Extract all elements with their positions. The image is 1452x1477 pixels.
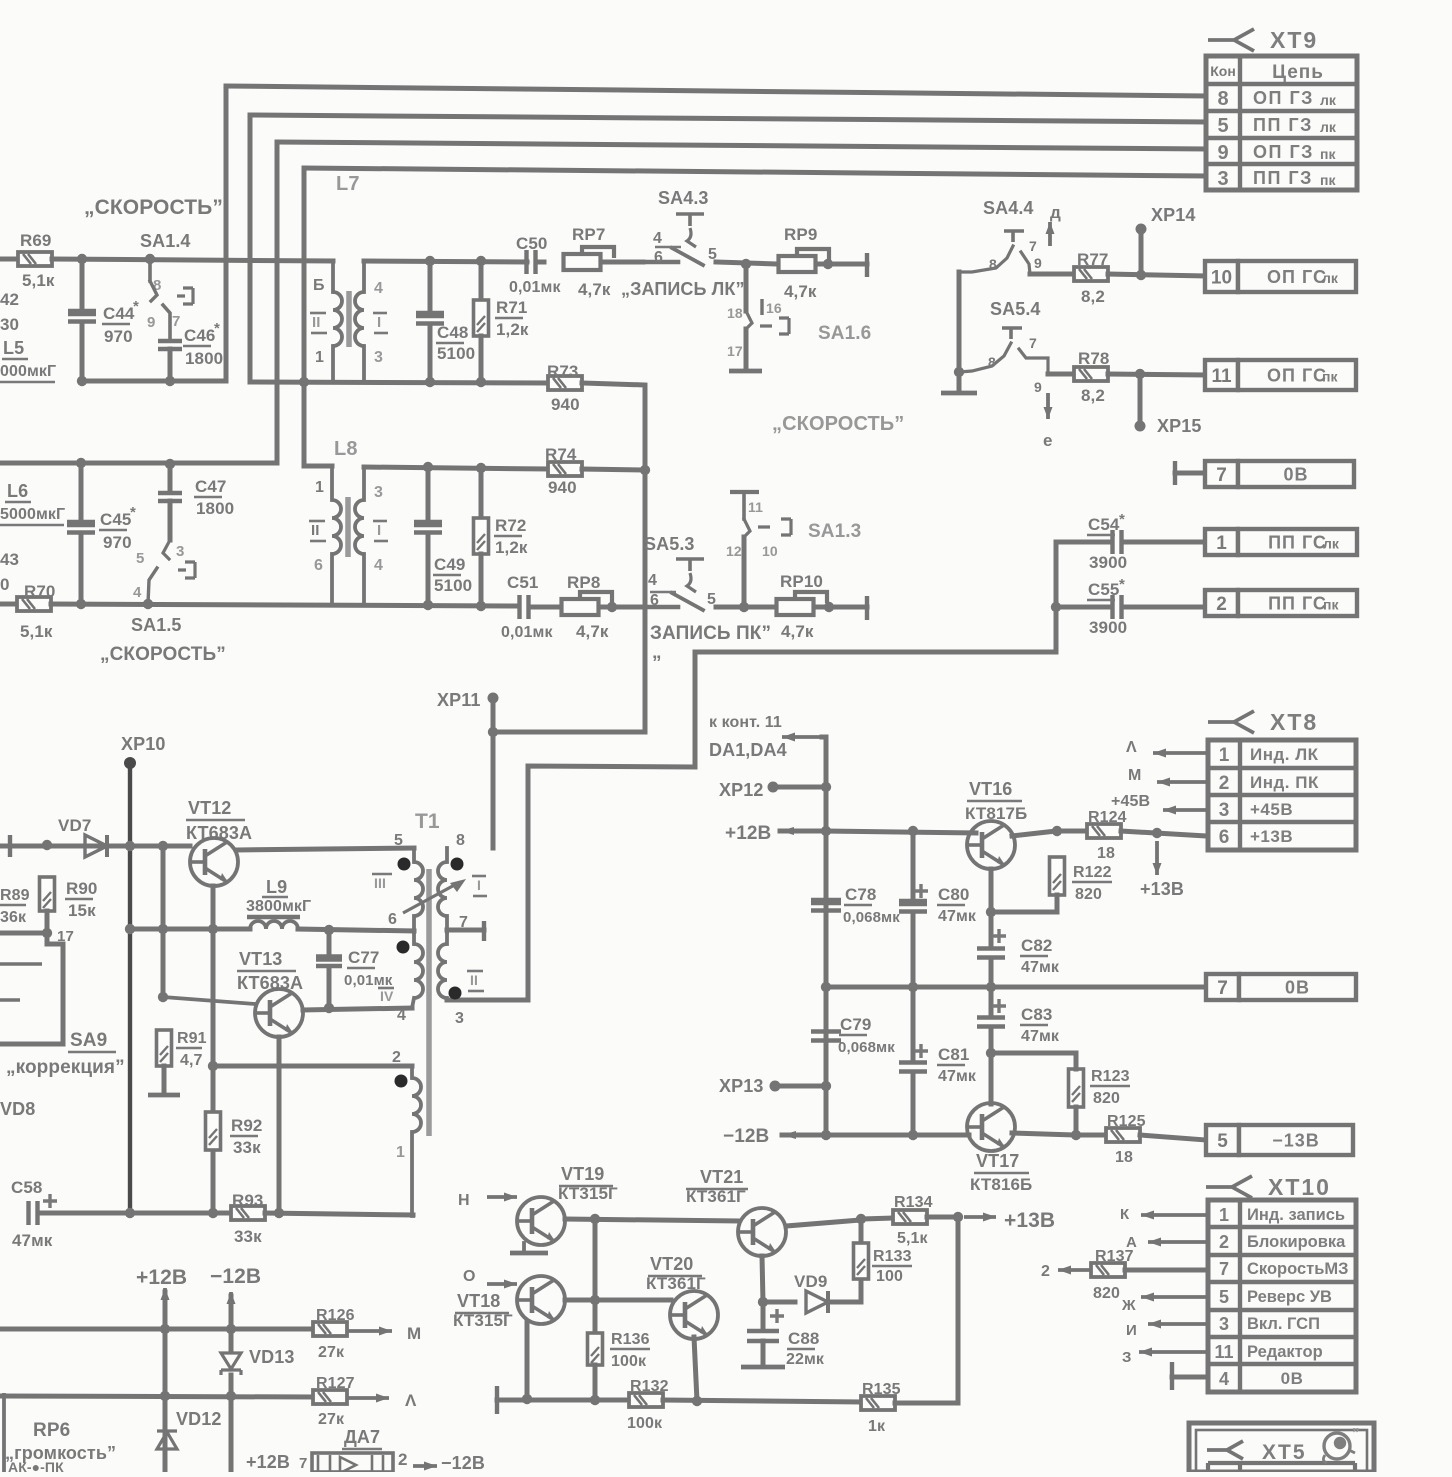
- resistor R125: [1106, 1128, 1140, 1142]
- transistor VT16: [967, 821, 1015, 869]
- potentiometer RP10: [777, 592, 828, 615]
- node +13V bottom: [953, 1212, 963, 1222]
- node XP15: [1135, 369, 1145, 379]
- node RP10 out: [824, 602, 834, 612]
- wire C44 bottom: [80, 325, 85, 381]
- svg-text:VT12: VT12: [188, 798, 231, 818]
- svg-text:C77: C77: [348, 948, 380, 967]
- svg-text:5: 5: [1219, 1287, 1229, 1307]
- capacitor C46 symbol: [158, 341, 182, 349]
- wire vertical net PP G3 pk: [302, 168, 307, 466]
- svg-text:ДА7: ДА7: [344, 1427, 380, 1447]
- svg-text:VD13: VD13: [249, 1347, 294, 1367]
- svg-text:СкоростьМЗ: СкоростьМЗ: [1247, 1260, 1348, 1278]
- svg-text:*: *: [214, 320, 220, 337]
- terminal bar LK: [865, 253, 869, 277]
- adjustment arrow T1: [403, 882, 460, 913]
- node -12V/L row: [226, 1391, 236, 1401]
- plug XP11: [488, 693, 499, 704]
- svg-text:II: II: [311, 522, 320, 539]
- capacitor C44: [68, 313, 96, 322]
- wire C77 bottom lead: [327, 967, 332, 1009]
- svg-text:I: I: [377, 314, 381, 331]
- phase dot T1 winding I: [451, 858, 464, 871]
- svg-text:ПП ГЗ: ПП ГЗ: [1253, 168, 1313, 188]
- wire T1 pin3 to C54/C55 node: [447, 542, 1056, 1000]
- node C55 tap: [1051, 602, 1061, 612]
- resistor R69: [18, 252, 52, 266]
- resistor R136: [588, 1333, 603, 1365]
- plug XP10: [124, 757, 136, 769]
- svg-text:SA4.4: SA4.4: [983, 198, 1034, 218]
- svg-text:XP11: XP11: [437, 690, 480, 710]
- capacitor C78 plates: [811, 902, 841, 911]
- node block1 rail C46: [165, 376, 175, 386]
- arrow to DA1 DA4: [782, 733, 822, 742]
- node R136 bottom: [590, 1395, 600, 1405]
- terminal bottom rail: [495, 1386, 499, 1414]
- arrow -12V up: [227, 1292, 236, 1320]
- node R133 top: [856, 1214, 866, 1224]
- connector pin 1 PP GS lk: [1205, 529, 1357, 555]
- wire R133 bottom lead: [859, 1281, 864, 1302]
- svg-text:10: 10: [762, 543, 778, 559]
- svg-text:SA4.3: SA4.3: [658, 188, 709, 208]
- svg-text:5,1к: 5,1к: [22, 271, 55, 290]
- connector XT8 label: [1208, 709, 1318, 735]
- node C82/C83 0V: [986, 982, 996, 992]
- svg-text:XP14: XP14: [1151, 205, 1195, 225]
- svg-text:970: 970: [104, 327, 133, 346]
- svg-text:6: 6: [314, 557, 323, 574]
- wire C48 upper: [428, 261, 433, 312]
- node R90 top: [42, 840, 52, 850]
- svg-text:C47: C47: [195, 477, 227, 496]
- node R92/T1 pin2: [208, 1061, 218, 1071]
- connector pin 11 OP GS pk: [1205, 360, 1356, 390]
- svg-text:−13В: −13В: [1272, 1130, 1320, 1150]
- svg-text:0В: 0В: [1285, 977, 1310, 997]
- svg-text:Реверс УВ: Реверс УВ: [1247, 1288, 1332, 1306]
- svg-text:1: 1: [396, 1144, 405, 1161]
- resistor R93: [231, 1206, 265, 1220]
- wire R77 to XT box: [1108, 274, 1205, 276]
- svg-text:R90: R90: [66, 879, 98, 898]
- node C48 top: [425, 256, 435, 266]
- wire bottom rail 1: [497, 1398, 629, 1403]
- wire VD9 to R133: [829, 1300, 861, 1305]
- node XP11 junction: [488, 727, 498, 737]
- wire R91 to ground: [162, 1066, 167, 1093]
- svg-text:М: М: [407, 1324, 421, 1343]
- transformer T1 left winding IV: [412, 932, 416, 944]
- wire XP11 to R73/R74 branch: [493, 730, 645, 735]
- svg-text:17: 17: [727, 343, 743, 359]
- resistor R124: [1087, 824, 1121, 838]
- svg-text:5,1к: 5,1к: [897, 1230, 929, 1247]
- wire -12V vertical upper: [229, 1296, 234, 1352]
- svg-text:I: I: [477, 877, 481, 893]
- node C48 bottom: [425, 377, 435, 387]
- svg-text:0,068мк: 0,068мк: [843, 909, 900, 926]
- node VT16 emitter/R122: [986, 907, 996, 917]
- svg-text:+12В: +12В: [246, 1452, 290, 1472]
- svg-text:7: 7: [172, 313, 180, 330]
- node crossing PP G3 pk: [299, 377, 309, 387]
- node RP9 out: [823, 259, 833, 269]
- svg-text:0В: 0В: [1283, 464, 1308, 484]
- wire C81 bottom lead: [911, 1072, 916, 1135]
- node C77 bottom: [324, 1003, 334, 1013]
- phase dot T1 winding V: [395, 1075, 408, 1088]
- svg-text:„ЗАПИСЬ ЛК”: „ЗАПИСЬ ЛК”: [621, 279, 745, 299]
- node block2 C45 top: [76, 458, 86, 468]
- switch SA1.3: [730, 490, 759, 494]
- wire L8 top rail: [364, 467, 548, 469]
- svg-text:1: 1: [1219, 1205, 1229, 1225]
- terminal 0V upper: [1173, 461, 1177, 485]
- node C80/C81 0V: [908, 982, 918, 992]
- resistor R77: [1074, 267, 1108, 281]
- node XP14: [1136, 270, 1146, 280]
- phase dot T1 winding II: [449, 987, 462, 1000]
- svg-text:R91: R91: [177, 1030, 207, 1047]
- svg-text:C79: C79: [840, 1015, 872, 1034]
- svg-text:6: 6: [388, 911, 397, 928]
- resistor R78: [1074, 367, 1108, 381]
- wire VD7 row: [0, 844, 190, 849]
- svg-text:0,068мк: 0,068мк: [838, 1039, 895, 1056]
- wire to C54: [1056, 540, 1110, 545]
- resistor R71: [474, 300, 489, 336]
- wire R71 upper: [479, 261, 484, 301]
- svg-text:1: 1: [315, 349, 324, 366]
- svg-text:IV: IV: [380, 988, 394, 1004]
- svg-text:VT21: VT21: [700, 1167, 743, 1187]
- svg-text:+45В: +45В: [1111, 793, 1150, 810]
- svg-text:Ж: Ж: [1121, 1297, 1136, 1314]
- switch SA1.3 arm: [744, 519, 750, 537]
- node +12V bus: [821, 826, 831, 836]
- wire XP11 vertical: [491, 698, 496, 848]
- resistor R70: [17, 597, 51, 611]
- transistor VT17: [967, 1103, 1015, 1151]
- svg-text:R72: R72: [495, 516, 527, 535]
- svg-text:9: 9: [147, 314, 155, 331]
- svg-text:C58: C58: [11, 1178, 43, 1197]
- svg-text:3: 3: [1219, 800, 1230, 821]
- svg-text:„СКОРОСТЬ”: „СКОРОСТЬ”: [84, 196, 223, 219]
- node +12V/M row: [160, 1324, 170, 1334]
- svg-text:ХТ9: ХТ9: [1270, 27, 1318, 53]
- svg-text:XP12: XP12: [719, 780, 763, 800]
- svg-text:4,7к: 4,7к: [784, 282, 817, 301]
- svg-text:4: 4: [133, 584, 142, 601]
- wire C77 top lead: [327, 930, 332, 957]
- svg-text:VD7: VD7: [58, 816, 91, 835]
- arrow VT18 base: [487, 1280, 517, 1289]
- svg-text:Кон: Кон: [1210, 63, 1236, 79]
- svg-text:3: 3: [1219, 1314, 1229, 1334]
- node junction SA1.4: [145, 254, 155, 264]
- wire C45 top: [79, 463, 84, 520]
- wire C51 to RP8: [529, 605, 561, 610]
- node R74 vertical: [640, 465, 650, 475]
- wire VT21 emitter down: [762, 1256, 763, 1302]
- switch SA1.4 throw contact: [177, 288, 193, 304]
- svg-text:R70: R70: [24, 582, 56, 601]
- wire XP15 stub: [1138, 374, 1143, 424]
- connector pin 7 0V upper: [1205, 461, 1354, 487]
- svg-text:”: ”: [1352, 1425, 1360, 1442]
- node +13V arrow: [1152, 828, 1162, 838]
- svg-text:1: 1: [1219, 745, 1230, 766]
- svg-text:R78: R78: [1078, 349, 1110, 368]
- wire block1 bottom rail: [82, 379, 226, 384]
- svg-text:пк: пк: [1320, 146, 1336, 162]
- svg-text:5100: 5100: [434, 576, 472, 595]
- transformer T1 right winding II: [445, 932, 449, 944]
- wire SA1.6 down: [744, 329, 749, 370]
- svg-text:ОП ГС: ОП ГС: [1267, 365, 1327, 385]
- svg-text:+45В: +45В: [1250, 800, 1293, 819]
- svg-text:9: 9: [1034, 255, 1042, 271]
- node junction R69/C44: [77, 254, 87, 264]
- node VT12 emitter/L9: [208, 924, 218, 934]
- capacitor C88 plates: [747, 1331, 779, 1341]
- svg-text:820: 820: [1093, 1090, 1120, 1107]
- svg-text:100к: 100к: [611, 1353, 647, 1370]
- switch block SA9 box partial: [0, 964, 42, 1000]
- switch SA1.6 arm: [746, 311, 752, 329]
- svg-text:АК-●-ПК: АК-●-ПК: [8, 1459, 64, 1472]
- capacitor C49: [414, 524, 442, 533]
- wire VT19 emitter: [522, 1243, 526, 1251]
- node VT13 emitter bottom: [274, 1208, 284, 1218]
- potentiometer RP7: [564, 247, 615, 270]
- node C45 bottom: [76, 599, 86, 609]
- diode VD12: [157, 1431, 177, 1449]
- arrow XT10 pin3: [1148, 1320, 1208, 1329]
- capacitor C47: [158, 493, 182, 501]
- svg-text:ОП ГС: ОП ГС: [1267, 267, 1327, 287]
- svg-text:КТ315Г: КТ315Г: [453, 1311, 513, 1330]
- svg-text:5: 5: [1217, 115, 1228, 137]
- node R71 top: [476, 256, 486, 266]
- wire VT17 out: [1012, 1133, 1076, 1135]
- wire R71 lower: [479, 336, 484, 382]
- svg-text:47мк: 47мк: [1021, 1028, 1060, 1045]
- svg-text:L6: L6: [7, 481, 28, 501]
- node C80 top: [908, 826, 918, 836]
- capacitor C54: [1113, 530, 1122, 554]
- svg-text:33к: 33к: [234, 1227, 262, 1246]
- svg-text:−12В: −12В: [441, 1453, 485, 1472]
- wire to R124: [1057, 829, 1087, 834]
- node R122 top: [1052, 826, 1062, 836]
- wire R124 to XT8: [1121, 831, 1206, 836]
- wire to C55: [1056, 605, 1110, 610]
- node block2 C47 top: [165, 459, 175, 469]
- node bus 0V: [821, 982, 831, 992]
- wire SA4.4 to R77: [1030, 272, 1074, 277]
- svg-text:43: 43: [0, 550, 19, 569]
- svg-text:пк: пк: [1323, 596, 1339, 612]
- svg-text:ОП ГЗ: ОП ГЗ: [1253, 142, 1314, 162]
- svg-text:1к: 1к: [868, 1418, 886, 1435]
- diode VD9: [806, 1291, 828, 1313]
- svg-text:Цепь: Цепь: [1272, 62, 1324, 83]
- svg-text:VD8: VD8: [0, 1099, 35, 1119]
- node C77 top: [324, 925, 334, 935]
- svg-text:3900: 3900: [1089, 553, 1127, 572]
- arrow XT8 pin3: [1163, 806, 1206, 815]
- wire vertical net OP G3 lk: [224, 86, 229, 381]
- wire XP14 stub: [1139, 231, 1144, 275]
- wire R70 left: [0, 602, 17, 607]
- svg-text:R89: R89: [0, 887, 30, 904]
- connector XT8 table: [1208, 740, 1356, 850]
- svg-text:33к: 33к: [233, 1138, 261, 1157]
- svg-text:О: О: [463, 1268, 476, 1285]
- resistor R73: [548, 376, 582, 390]
- wire XP10 vertical: [128, 763, 132, 1213]
- wire bottom rail right: [265, 1213, 413, 1215]
- node RP9/SA1.6: [741, 259, 751, 269]
- svg-text:C45: C45: [100, 510, 132, 529]
- node XP10/VD7: [125, 841, 135, 851]
- svg-text:820: 820: [1093, 1285, 1120, 1302]
- svg-text:C81: C81: [938, 1045, 970, 1064]
- svg-text:*: *: [133, 298, 139, 315]
- capacitor C50: [527, 250, 536, 274]
- svg-text:Н: Н: [458, 1192, 470, 1209]
- svg-text:L5: L5: [3, 338, 24, 358]
- capacitor C45: [67, 524, 95, 533]
- wire RP8 to SA5.3: [599, 605, 643, 610]
- svg-text:47мк: 47мк: [1021, 959, 1060, 976]
- wire SA4.4 common: [957, 272, 962, 372]
- wire C80 bottom lead: [911, 912, 916, 987]
- terminal bar SA1.6: [729, 369, 762, 374]
- svg-text:C55: C55: [1088, 580, 1120, 599]
- svg-text:940: 940: [548, 478, 577, 497]
- resistor R135: [861, 1396, 895, 1410]
- svg-text:R124: R124: [1088, 809, 1127, 826]
- resistor R91: [157, 1030, 172, 1066]
- svg-text:3: 3: [1217, 168, 1228, 190]
- svg-text:1: 1: [315, 479, 324, 496]
- svg-text:R92: R92: [231, 1116, 263, 1135]
- wire C49 upper: [426, 467, 431, 521]
- connector pin 7 0V lower: [1206, 974, 1356, 1000]
- svg-text:C54: C54: [1088, 515, 1120, 534]
- wire R125 to XT box: [1140, 1135, 1206, 1140]
- svg-text:5: 5: [394, 832, 403, 849]
- wire R72 upper: [479, 468, 484, 519]
- wire +12V in: [780, 829, 826, 834]
- svg-text:SA9: SA9: [70, 1030, 107, 1051]
- inductor L8 right winding I: [362, 467, 366, 500]
- svg-text:XP13: XP13: [719, 1076, 763, 1096]
- svg-text:*: *: [1119, 511, 1125, 528]
- arrow XT8 pin2: [1157, 778, 1206, 787]
- capacitor C80: [899, 903, 927, 912]
- node L8 rail C49: [423, 462, 433, 472]
- svg-text:8: 8: [989, 256, 997, 272]
- wire RP9 to stop: [816, 262, 867, 267]
- wire +12V rail: [826, 831, 976, 833]
- transistor VT18: [517, 1276, 565, 1324]
- node L9/VD7 branch: [158, 924, 168, 934]
- wire R123 top lead: [1074, 1053, 1079, 1069]
- plug XP13: [770, 1081, 781, 1092]
- svg-text:3800мкГ: 3800мкГ: [246, 898, 311, 915]
- svg-text:RP8: RP8: [567, 573, 600, 592]
- node -12V/M row: [226, 1324, 236, 1334]
- wire R136 bottom: [593, 1365, 598, 1400]
- wire C47 to SA1.5: [168, 501, 173, 540]
- svg-text:Λ: Λ: [1126, 739, 1137, 756]
- wire L7 top rail to C50: [364, 261, 527, 262]
- svg-text:XP15: XP15: [1157, 416, 1201, 436]
- wire C45 bottom: [79, 536, 84, 604]
- svg-text:Инд. ЛК: Инд. ЛК: [1250, 745, 1319, 764]
- wire VT16 collector out: [1012, 831, 1056, 836]
- svg-text:3: 3: [455, 1010, 464, 1027]
- svg-text:0В: 0В: [1281, 1369, 1304, 1388]
- svg-text:Инд. запись: Инд. запись: [1247, 1206, 1345, 1224]
- icon XT5 screw: [1324, 1433, 1350, 1459]
- wire SA4.3 to RP9: [716, 262, 778, 264]
- transformer T1 left winding V: [370, 1065, 412, 1067]
- ground SA4.4/SA5.4: [941, 391, 977, 396]
- arrow +13V down: [1153, 841, 1162, 875]
- transistor VT19: [517, 1197, 565, 1245]
- svg-text:Инд. ПК: Инд. ПК: [1250, 773, 1319, 792]
- svg-text:VT16: VT16: [969, 779, 1012, 799]
- node R92 bottom: [208, 1208, 218, 1218]
- ground R91: [148, 1093, 180, 1098]
- svg-text:970: 970: [103, 533, 132, 552]
- svg-text:И: И: [1126, 1322, 1137, 1339]
- svg-text:C51: C51: [507, 573, 539, 592]
- wire SA5.4 to R78: [1048, 372, 1074, 377]
- svg-text:*: *: [130, 504, 136, 521]
- wire VT21 to R134: [786, 1220, 861, 1226]
- svg-text:R132: R132: [630, 1378, 669, 1395]
- svg-text:7: 7: [299, 1455, 307, 1472]
- wire SA1.3 down: [742, 537, 747, 607]
- svg-text:9: 9: [1217, 142, 1228, 164]
- switch SA1.4 contacts: [148, 259, 152, 281]
- core T1: [426, 869, 432, 1136]
- svg-text:27к: 27к: [318, 1411, 345, 1428]
- wire VT20 emitter down: [694, 1337, 697, 1401]
- svg-text:C48: C48: [437, 323, 469, 342]
- wire emitter to R122: [991, 910, 1057, 915]
- node SA1.3/RP10: [739, 602, 749, 612]
- svg-text:II: II: [312, 314, 321, 331]
- wire R135 to +13V node: [895, 1217, 958, 1403]
- potentiometer RP8: [562, 592, 613, 615]
- svg-text:+13В: +13В: [1004, 1209, 1055, 1232]
- core L8: [345, 497, 351, 557]
- svg-text:SA5.4: SA5.4: [990, 299, 1041, 319]
- node SA1.5 bottom: [143, 599, 153, 609]
- svg-text:2: 2: [1219, 1232, 1229, 1252]
- svg-text:Редактор: Редактор: [1247, 1343, 1323, 1361]
